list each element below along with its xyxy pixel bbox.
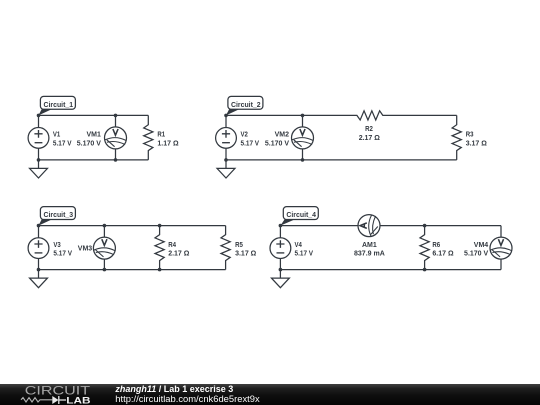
svg-text:AM1: AM1 <box>362 242 377 249</box>
svg-text:V4: V4 <box>295 242 302 249</box>
svg-text:Circuit_3: Circuit_3 <box>44 212 74 219</box>
svg-text:5.17 V: 5.17 V <box>53 140 72 147</box>
svg-text:VM3: VM3 <box>78 246 93 253</box>
svg-text:Circuit_1: Circuit_1 <box>44 102 74 109</box>
svg-text:V3: V3 <box>53 242 60 249</box>
svg-text:5.170 V: 5.170 V <box>265 140 289 147</box>
svg-text:R3: R3 <box>466 132 474 139</box>
svg-text:2.17 Ω: 2.17 Ω <box>359 135 381 142</box>
svg-text:R2: R2 <box>365 126 373 133</box>
svg-text:6.17 Ω: 6.17 Ω <box>432 251 454 258</box>
svg-text:VM2: VM2 <box>275 132 290 139</box>
svg-text:R5: R5 <box>235 242 243 249</box>
svg-text:3.17 Ω: 3.17 Ω <box>466 140 488 147</box>
svg-text:837.9 mA: 837.9 mA <box>354 251 385 258</box>
svg-text:R1: R1 <box>157 132 165 139</box>
svg-text:5.17 V: 5.17 V <box>241 140 260 147</box>
svg-text:Circuit_4: Circuit_4 <box>286 212 316 219</box>
svg-text:3.17 Ω: 3.17 Ω <box>235 251 257 258</box>
svg-text:5.17 V: 5.17 V <box>295 251 314 258</box>
svg-text:5.170 V: 5.170 V <box>77 140 101 147</box>
svg-text:V2: V2 <box>241 132 248 139</box>
svg-text:R4: R4 <box>168 242 176 249</box>
svg-text:1.17 Ω: 1.17 Ω <box>157 140 179 147</box>
svg-text:5.17 V: 5.17 V <box>53 251 72 258</box>
svg-text:R6: R6 <box>432 242 440 249</box>
svg-text:Circuit_2: Circuit_2 <box>231 102 261 109</box>
svg-text:5.170 V: 5.170 V <box>464 251 488 258</box>
svg-text:LAB: LAB <box>66 395 91 405</box>
svg-text:VM1: VM1 <box>86 132 101 139</box>
svg-text:2.17 Ω: 2.17 Ω <box>168 251 190 258</box>
svg-text:VM4: VM4 <box>474 242 489 249</box>
svg-text:V1: V1 <box>53 132 60 139</box>
